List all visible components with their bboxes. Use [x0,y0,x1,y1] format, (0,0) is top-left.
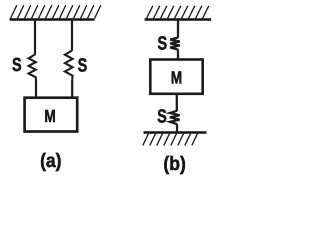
spring S1 (left, a) [29,55,36,82]
mass M (b) [150,60,202,94]
ceiling (b) [145,18,212,21]
ceiling hatching (a) [11,5,101,18]
label S (right spring, a) [78,56,88,77]
svg-text:(b): (b) [163,153,185,175]
mass M (a) [25,98,78,132]
svg-text:S: S [157,106,167,127]
label S (upper spring, b) [157,34,167,55]
svg-text:S: S [78,56,88,77]
svg-text:S: S [12,55,22,76]
label S (lower spring, b) [157,106,167,127]
svg-text:S: S [157,34,167,55]
svg-text:M: M [44,106,55,126]
floor (b) [144,131,207,134]
label M (mass b) [171,68,182,88]
label S (left spring, a) [12,55,22,76]
wire spring S3 to mass [177,50,179,61]
ceiling (a) [10,18,95,21]
wire spring S4 to floor [176,124,178,132]
ceiling hatching (b) [147,6,209,19]
spring S3 (upper, b) [170,38,180,50]
spring S4 (lower, b) [170,111,180,124]
wire ceiling to spring S1 [34,21,36,55]
wire spring S2 to mass [71,80,73,98]
svg-text:M: M [171,68,182,88]
wire ceiling to spring S2 [71,21,73,51]
label M (mass a) [44,106,55,126]
wire mass to spring S4 [176,94,178,111]
wire ceiling to spring S3 [177,21,179,38]
floor hatching (b) [143,134,198,146]
svg-text:(a): (a) [40,150,61,172]
wire spring S1 to mass [35,81,37,98]
caption (a) [40,150,61,172]
caption (b) [163,153,185,175]
spring S2 (right, a) [65,51,73,80]
